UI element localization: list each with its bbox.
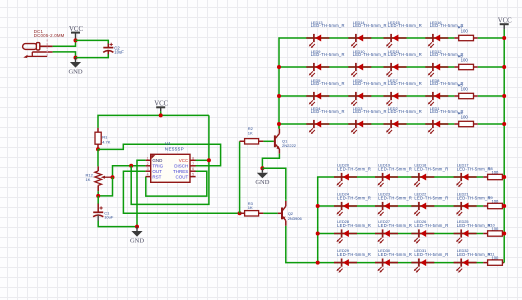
resistor R1	[95, 128, 101, 149]
svg-text:2N3906: 2N3906	[288, 216, 303, 221]
svg-text:LED-TH-5mm_R: LED-TH-5mm_R	[378, 252, 412, 257]
pin 7 DISCH	[190, 165, 196, 167]
wire OUT to R3 row	[123, 171, 239, 213]
wire VCC pin 8	[195, 159, 209, 161]
junction	[277, 94, 281, 98]
wire wiper to R12 bottom	[98, 177, 112, 196]
junction	[260, 166, 264, 170]
wire VCC top rail	[98, 115, 209, 128]
junction	[111, 175, 115, 179]
wire bottom LED row y=262.6	[318, 262, 484, 264]
svg-text:LED-TH-5mm_R: LED-TH-5mm_R	[378, 195, 412, 200]
svg-text:LED-TH-5mm_R: LED-TH-5mm_R	[457, 195, 491, 200]
resistor R10	[483, 231, 504, 236]
svg-text:100: 100	[461, 58, 469, 63]
svg-text:LED-TH-5mm_R: LED-TH-5mm_R	[457, 223, 491, 228]
svg-text:LED-TH-5mm_R: LED-TH-5mm_R	[311, 81, 345, 86]
svg-text:U1: U1	[165, 141, 171, 146]
pin 8 VCC	[190, 159, 196, 161]
junction	[277, 65, 281, 69]
svg-text:LED-TH-5mm_R: LED-TH-5mm_R	[353, 109, 387, 114]
junction	[96, 147, 100, 151]
svg-text:6: 6	[192, 167, 194, 171]
LED LED29	[334, 259, 357, 273]
wire top LED row y=96	[279, 95, 454, 97]
svg-text:2N2222: 2N2222	[282, 143, 297, 148]
ground top-left	[68, 58, 82, 76]
resistor R8	[483, 174, 504, 179]
junction	[316, 204, 320, 208]
svg-text:LED-TH-5mm_R: LED-TH-5mm_R	[311, 109, 345, 114]
svg-text:LED-TH-5mm_R: LED-TH-5mm_R	[388, 23, 422, 28]
junction	[502, 94, 506, 98]
wire jack tip to VCC node	[53, 40, 76, 46]
resistor R4	[454, 121, 477, 126]
wire VCC rail right	[503, 29, 505, 262]
LED LED31	[411, 259, 434, 273]
LED LED9	[306, 63, 329, 77]
wire top LED row y=124	[279, 123, 454, 125]
svg-text:LED-TH-5mm_R: LED-TH-5mm_R	[414, 223, 448, 228]
junction	[502, 122, 506, 126]
svg-text:NE555P: NE555P	[165, 146, 184, 151]
LED LED10	[348, 63, 371, 77]
junction	[502, 232, 506, 236]
wire top array feed and row 1	[279, 38, 454, 129]
svg-text:LED-TH-5mm_R: LED-TH-5mm_R	[414, 252, 448, 257]
LED LED21	[454, 202, 477, 216]
svg-text:GND: GND	[152, 158, 163, 163]
svg-text:7: 7	[192, 162, 194, 166]
junction	[316, 261, 320, 265]
svg-text:LED-TH-5mm_R: LED-TH-5mm_R	[353, 52, 387, 57]
svg-text:LED-TH-5mm_R: LED-TH-5mm_R	[337, 166, 371, 171]
svg-text:4.7K: 4.7K	[102, 140, 111, 145]
LED LED16	[425, 34, 448, 48]
svg-text:LED-TH-5mm_R: LED-TH-5mm_R	[311, 52, 345, 57]
LED LED22	[411, 202, 434, 216]
LED LED19	[375, 173, 398, 187]
svg-text:LED-TH-5mm_R: LED-TH-5mm_R	[388, 52, 422, 57]
wire ground node to Q2	[262, 168, 285, 200]
svg-text:COUT: COUT	[176, 174, 189, 179]
LED LED3	[348, 120, 371, 134]
resistor R3	[240, 211, 264, 216]
LED LED18	[411, 173, 434, 187]
svg-text:1K: 1K	[248, 130, 253, 135]
LED LED32	[454, 259, 477, 273]
wire Q2 top pin	[285, 200, 287, 201]
svg-text:LED-TH-5mm_R: LED-TH-5mm_R	[337, 195, 371, 200]
svg-text:VCC: VCC	[179, 158, 189, 163]
junction	[74, 38, 78, 42]
svg-text:LED-TH-5mm_R: LED-TH-5mm_R	[457, 166, 491, 171]
wire R4 to VCC rail	[478, 123, 504, 125]
potentiometer R12	[95, 166, 113, 191]
junction	[238, 211, 242, 215]
LED LED25	[454, 229, 477, 243]
svg-text:10uF: 10uF	[104, 215, 114, 220]
svg-text:LED-TH-5mm_R: LED-TH-5mm_R	[353, 81, 387, 86]
svg-text:RST: RST	[152, 174, 161, 179]
svg-text:LED-TH-5mm_R: LED-TH-5mm_R	[388, 109, 422, 114]
LED LED12	[425, 63, 448, 77]
transistor Q1	[274, 129, 280, 154]
wire R1 bottom to DISCH	[98, 144, 221, 166]
wire bottom LED row y=233.5	[318, 233, 484, 235]
LED LED28	[334, 229, 357, 243]
LED LED5	[306, 92, 329, 106]
svg-text:LED-TH-5mm_R: LED-TH-5mm_R	[337, 252, 371, 257]
LED LED2	[384, 120, 407, 134]
junction	[135, 225, 139, 229]
junction	[502, 36, 506, 40]
svg-text:3: 3	[147, 167, 149, 171]
resistor R2	[240, 139, 264, 144]
capacitor C2	[103, 43, 113, 54]
VCC flag right	[498, 17, 512, 29]
LED LED15	[384, 34, 407, 48]
svg-text:LED-TH-5mm_R: LED-TH-5mm_R	[414, 195, 448, 200]
transistor Q2	[278, 201, 286, 226]
LED LED11	[384, 63, 407, 77]
resistor R5	[454, 93, 477, 98]
svg-text:100: 100	[461, 115, 469, 120]
wire TRIG to wiper	[113, 166, 146, 177]
op-amp U1 NE555P body	[151, 154, 190, 182]
pin 3 OUT	[146, 170, 151, 172]
pin 5 COUT	[190, 176, 196, 178]
resistor R7	[454, 35, 477, 40]
LED LED26	[411, 229, 434, 243]
junction	[502, 65, 506, 69]
junction	[129, 164, 133, 168]
LED LED27	[375, 229, 398, 243]
svg-text:LED-TH-5mm_R: LED-TH-5mm_R	[378, 223, 412, 228]
svg-text:4: 4	[147, 173, 149, 177]
svg-text:TRIG: TRIG	[152, 164, 163, 169]
junction	[277, 122, 281, 126]
wire R1 bottom to R12 top	[97, 149, 99, 166]
capacitor C1	[93, 204, 103, 221]
svg-text:GND: GND	[255, 179, 269, 186]
junction	[207, 158, 211, 162]
wire bottom LED row y=206	[318, 205, 484, 207]
wire R12 bottom to C1	[97, 196, 99, 204]
wire R3 to Q2 base	[263, 212, 277, 214]
wire R6 to VCC rail	[478, 66, 504, 68]
ground mid	[130, 227, 144, 245]
wire VCC node to C2 top	[76, 40, 109, 43]
svg-text:LED-TH-5mm_R: LED-TH-5mm_R	[337, 223, 371, 228]
svg-text:100: 100	[461, 87, 469, 92]
junction	[74, 56, 78, 60]
wire top LED row y=67	[279, 66, 454, 68]
svg-text:2: 2	[147, 162, 149, 166]
svg-text:GND: GND	[68, 68, 82, 75]
svg-text:DISCH: DISCH	[174, 164, 188, 169]
svg-text:1K: 1K	[86, 177, 91, 182]
wire Q1 emitter to ground node	[262, 154, 279, 169]
svg-text:OUT: OUT	[152, 169, 162, 174]
pin 2 TRIG	[146, 165, 151, 167]
svg-text:1K: 1K	[248, 205, 253, 210]
svg-text:10uF: 10uF	[114, 50, 124, 55]
wire GND pin 1 down	[137, 160, 146, 226]
svg-text:LED-TH-5mm_R: LED-TH-5mm_R	[388, 81, 422, 86]
pin 4 RST	[146, 176, 151, 178]
junction	[502, 175, 506, 179]
svg-text:LED-TH-5mm_R: LED-TH-5mm_R	[457, 252, 491, 257]
VCC flag top-left	[69, 26, 83, 41]
svg-text:LED-TH-5mm_R: LED-TH-5mm_R	[414, 166, 448, 171]
DC jack DC1	[23, 40, 53, 59]
wire TRIG tie to VCC riser	[131, 115, 209, 204]
wire C1 bottom to ground	[98, 221, 137, 227]
LED LED23	[375, 202, 398, 216]
svg-text:DC005-2.0MM: DC005-2.0MM	[34, 33, 65, 38]
svg-text:100: 100	[461, 29, 469, 34]
wire jack sleeve to GND node	[53, 52, 76, 58]
resistor R9	[483, 203, 504, 208]
pin 1 GND	[146, 159, 151, 161]
svg-text:1: 1	[147, 156, 149, 160]
svg-text:8: 8	[192, 156, 194, 160]
junction	[159, 113, 163, 117]
wire R7 to VCC rail	[478, 37, 504, 39]
svg-text:5: 5	[192, 173, 194, 177]
LED LED7	[384, 92, 407, 106]
wire bottom array feed and row 1	[318, 177, 484, 263]
wire Q2 bottom to LED array	[286, 226, 318, 263]
wire R2 riser	[239, 141, 241, 213]
LED LED20	[334, 173, 357, 187]
LED LED1	[425, 120, 448, 134]
wire Q1 collector up	[278, 124, 280, 129]
wire RST to THRES	[146, 171, 207, 196]
junction	[502, 204, 506, 208]
wire R5 to VCC rail	[478, 95, 504, 97]
ground Q1	[255, 168, 269, 186]
resistor R11	[483, 260, 504, 265]
LED LED30	[375, 259, 398, 273]
svg-text:LED-TH-5mm_R: LED-TH-5mm_R	[311, 23, 345, 28]
LED LED17	[454, 173, 477, 187]
svg-text:LED-TH-5mm_R: LED-TH-5mm_R	[353, 23, 387, 28]
LED LED4	[306, 120, 329, 134]
resistor R6	[454, 64, 477, 69]
LED LED13	[306, 34, 329, 48]
wire R2 to Q1 base	[263, 140, 273, 142]
wire R12 bottom	[97, 191, 99, 196]
wire GND node to C2 bottom	[76, 54, 109, 58]
svg-text:THRES: THRES	[173, 169, 188, 174]
VCC flag mid	[154, 101, 168, 116]
junction	[96, 194, 100, 198]
svg-text:GND: GND	[130, 237, 144, 244]
svg-text:LED-TH-5mm_R: LED-TH-5mm_R	[378, 166, 412, 171]
LED LED6	[348, 92, 371, 106]
LED LED8	[425, 92, 448, 106]
LED LED24	[334, 202, 357, 216]
LED LED14	[348, 34, 371, 48]
junction	[316, 232, 320, 236]
pin 6 THRES	[190, 170, 196, 172]
